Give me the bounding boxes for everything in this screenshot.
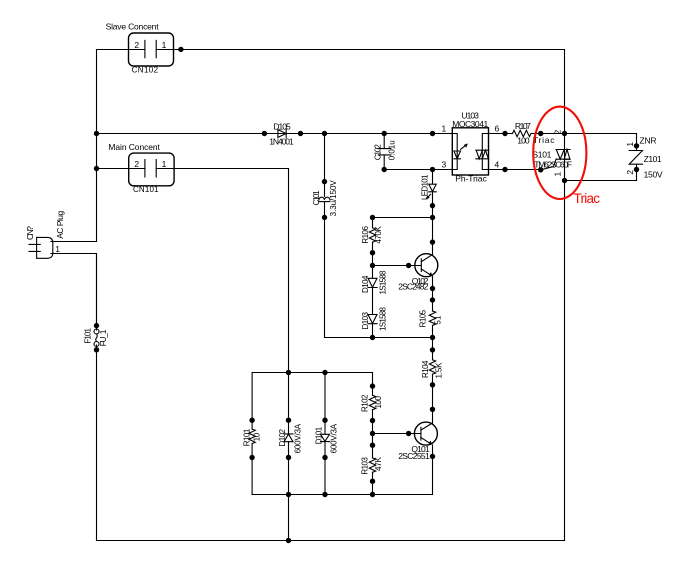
wire Q102 base (373, 265, 422, 267)
S101 pin 2 node (562, 131, 567, 136)
wire R102 top lead (372, 373, 374, 396)
CN102 contact bars (145, 40, 156, 57)
U103 internal triac symbol (476, 150, 489, 159)
svg-text:1: 1 (162, 40, 167, 50)
node top rail junction (178, 47, 183, 52)
wire right vertical rail (564, 50, 566, 541)
wire pin3 rail (384, 169, 452, 171)
Q102 body circle (415, 254, 438, 277)
plug body (37, 237, 53, 258)
C101 negative plate (319, 201, 330, 203)
svg-text:1: 1 (442, 123, 447, 133)
svg-text:Ph-Triac: Ph-Triac (455, 174, 487, 184)
capacitor C101 (312, 131, 338, 338)
wire pin6 rail (489, 133, 637, 135)
D102 symbol (284, 434, 293, 442)
node bottom rail junction (286, 538, 291, 543)
wire Q101 base (373, 433, 421, 435)
svg-text:C101: C101 (312, 190, 321, 206)
wire R106 bottom lead to D104 (372, 242, 374, 278)
triac S101 (532, 130, 572, 184)
svg-text:R104: R104 (421, 360, 430, 378)
U103 pin 6 node (502, 131, 507, 136)
optocoupler U103 (430, 110, 508, 183)
D101 anode pin node (322, 418, 327, 423)
svg-text:D101: D101 (314, 426, 323, 444)
fuse F101 (84, 323, 109, 353)
U103 body (452, 128, 488, 175)
wire R104 bottom lead to Q101 (432, 374, 434, 422)
node D103 bottom junction (370, 335, 375, 340)
node gate junction (538, 167, 543, 172)
svg-text:TM62SC60F: TM62SC60F (534, 159, 572, 169)
svg-text:F101: F101 (84, 328, 93, 344)
Q102 emitter stroke (421, 269, 431, 275)
D105 cathode pin node (298, 131, 303, 136)
wire Q101 emitter down (432, 445, 434, 495)
wire R103 bottom lead (372, 472, 374, 494)
svg-text:51: 51 (433, 315, 442, 325)
S101 gate wire (541, 159, 556, 170)
resistor R107 (513, 121, 544, 145)
resistor R105 (419, 309, 443, 337)
wire R101 top lead (251, 373, 253, 430)
R101 top pin node (249, 418, 254, 423)
wire top rail left of CN102 (97, 49, 145, 51)
diode D101 (314, 373, 338, 495)
wire sub bottom rail (252, 494, 432, 496)
wire R104 top lead (432, 338, 434, 360)
resistor R102 (361, 373, 383, 458)
R107 zigzag (513, 130, 531, 136)
U103 internal LED wiring (452, 134, 457, 170)
Z101 pin 1 node (634, 143, 639, 148)
svg-text:1S1588: 1S1588 (379, 306, 388, 331)
node C101 rail junction (322, 131, 327, 136)
node R106 link junction (430, 215, 435, 220)
wire Z101 bottom return (565, 180, 637, 182)
C102 lead wires (383, 134, 385, 170)
wire CN101 pin2 (97, 168, 145, 170)
R105 zigzag (429, 311, 435, 325)
wire R105 bottom lead (432, 325, 434, 337)
R103 top pin node (370, 443, 375, 448)
D104 symbol (368, 278, 377, 287)
R106 zigzag (369, 228, 375, 242)
Q101 base bar (420, 427, 422, 440)
wire R106 top lead (372, 218, 374, 228)
S101 terminal bars (556, 150, 570, 160)
C102 plates (378, 149, 391, 155)
node D102 top rail junction (286, 370, 291, 375)
svg-text:0.01u: 0.01u (387, 140, 396, 160)
C101 positive plate (319, 197, 330, 200)
svg-text:D102: D102 (278, 428, 287, 446)
node D101 top rail junction (322, 370, 327, 375)
node CN101 pin2 junction (94, 166, 99, 171)
D101 cathode pin node (322, 455, 327, 460)
svg-text:Triac: Triac (533, 135, 555, 145)
resistor R106 (361, 215, 383, 278)
D101 symbol (321, 434, 330, 441)
node C102 rail junction (382, 131, 387, 136)
svg-text:CN101: CN101 (133, 185, 159, 194)
wire plug to left rail (51, 242, 97, 326)
wire C101 down (324, 202, 326, 338)
wire R102 bottom lead (372, 410, 374, 458)
svg-text:D104: D104 (361, 275, 370, 293)
Q102 base bar (420, 259, 422, 272)
node R105 bottom junction (430, 335, 435, 340)
diode D102 (278, 418, 303, 461)
svg-text:1: 1 (55, 244, 60, 254)
svg-text:FU_1: FU_1 (99, 329, 108, 346)
svg-text:R107: R107 (515, 121, 531, 131)
svg-text:R105: R105 (419, 309, 428, 327)
wire D102 column to bottom rail (288, 442, 290, 541)
node rail-left junction (94, 131, 99, 136)
diode D105 (262, 121, 304, 146)
wire sub top rail (252, 372, 372, 374)
wire top rail CN102 to right corner (156, 49, 564, 51)
svg-text:1: 1 (625, 142, 635, 147)
Z101 pin 2 node (634, 167, 639, 172)
wire rail to C101 (324, 134, 326, 197)
S101 triangles (556, 150, 570, 160)
Q102 collector stroke (421, 255, 432, 262)
Q102 collector pin node (430, 239, 435, 244)
svg-text:10: 10 (253, 432, 262, 441)
F101 bottom pin node (94, 347, 99, 352)
wire main rail y133 (97, 133, 453, 135)
svg-text:R103: R103 (361, 457, 370, 475)
R102 top pin node (370, 383, 375, 388)
red circle annotation (533, 107, 586, 199)
LED101 emission arrow (427, 194, 431, 198)
CN102 body (129, 33, 174, 66)
svg-text:100: 100 (517, 136, 530, 146)
R101 bottom pin node (249, 455, 254, 460)
D105 symbol (278, 129, 286, 138)
svg-text:Slave Concent: Slave Concent (106, 22, 160, 32)
AC plug connector CN? (25, 211, 97, 326)
wire LED101 to Q102 collector (432, 192, 434, 255)
C101 bottom pin node (322, 215, 327, 220)
U103 coupling arrow (461, 144, 467, 149)
wire CN101 pin1 to right then down (156, 169, 288, 434)
wire bottom rail (97, 540, 565, 542)
F101 fuse element (96, 334, 97, 342)
wire C101 to D103 bottom link (325, 337, 433, 339)
svg-text:2: 2 (625, 170, 635, 175)
svg-text:AC Plug: AC Plug (55, 211, 65, 239)
svg-text:2: 2 (552, 130, 562, 135)
resistor R101 (243, 373, 262, 495)
svg-text:D103: D103 (361, 311, 370, 329)
U103 pin 4 node (502, 167, 507, 172)
CN101 contact bars (145, 160, 156, 177)
svg-text:1: 1 (162, 159, 167, 169)
plug prongs (29, 244, 40, 251)
R104 bottom pin node (430, 382, 435, 387)
U103 pin 3 node (430, 167, 435, 172)
node emitter pin (430, 454, 435, 459)
D105 anode pin node (262, 131, 267, 136)
Q101 emitter stroke (421, 438, 431, 444)
C102 bottom pin node (382, 167, 387, 172)
connector CN102 (106, 22, 174, 75)
svg-text:Main Concent: Main Concent (108, 142, 160, 152)
D102 cathode pin node (286, 418, 291, 423)
Q101 collector stroke (421, 423, 433, 430)
R103 bottom pin node (370, 479, 375, 484)
diode D103 (361, 306, 388, 337)
F101 terminal circles (94, 329, 99, 334)
R106 top pin node (370, 215, 375, 220)
Q101 base pin node (406, 431, 411, 436)
node Q101 base junction (370, 431, 375, 436)
svg-text:CN102: CN102 (132, 66, 159, 75)
wire pin3 node to LED (432, 170, 434, 185)
node base Q102 junction (370, 263, 375, 268)
R106 bottom pin node (370, 250, 375, 255)
node D101 bottom rail junction (322, 492, 327, 497)
wire left vertical upper (96, 50, 98, 242)
D103 symbol (368, 315, 377, 324)
svg-text:R101: R101 (243, 428, 252, 446)
svg-text:600V/3A: 600V/3A (330, 423, 339, 453)
U103 internal triac wiring (482, 134, 488, 170)
node R107 right junction (538, 131, 543, 136)
svg-text:47K: 47K (374, 456, 383, 471)
node R103 bottom rail junction (370, 492, 375, 497)
LED101 cathode pin node (430, 203, 435, 208)
svg-text:2SC2482: 2SC2482 (398, 282, 428, 292)
D102 anode pin node (286, 455, 291, 460)
resistor R104 (421, 338, 443, 423)
svg-text:470K: 470K (374, 225, 383, 243)
svg-text:2: 2 (134, 40, 139, 50)
Q101 collector pin node (430, 407, 435, 412)
svg-text:1: 1 (552, 172, 562, 177)
R102 zigzag (369, 395, 375, 409)
R102 bottom pin node (370, 418, 375, 423)
R101 zigzag (249, 429, 255, 443)
svg-text:D105: D105 (273, 121, 291, 131)
wire D101 bottom lead (324, 442, 326, 495)
varistor Z101 (565, 134, 663, 181)
R103 zigzag (369, 458, 375, 472)
svg-text:Triac: Triac (574, 191, 601, 206)
svg-text:6: 6 (495, 123, 500, 133)
svg-text:C102: C102 (374, 144, 383, 161)
svg-text:2SC2551: 2SC2551 (398, 451, 430, 461)
connector CN101 (108, 142, 174, 194)
svg-text:600V/3A: 600V/3A (294, 423, 303, 453)
U103 internal LED symbol (454, 151, 461, 159)
resistor R103 (361, 443, 383, 495)
svg-text:S101: S101 (532, 150, 551, 160)
Q101 body circle (414, 422, 437, 445)
wire R101 bottom lead (251, 444, 253, 495)
capacitor C102 (374, 131, 397, 172)
R104 zigzag (429, 360, 435, 374)
wire pin4 gate rail (489, 169, 541, 171)
S101 pin 1 node (562, 178, 567, 183)
transistor Q102 (373, 254, 438, 292)
svg-text:CN?: CN? (25, 226, 35, 240)
F101 top pin node (94, 323, 99, 328)
wire Q102 emitter to R105 (432, 276, 434, 311)
svg-text:1.5K: 1.5K (434, 362, 443, 379)
R104 top pin node (430, 347, 435, 352)
diode D104 (361, 270, 388, 315)
Q102 base pin node (406, 263, 411, 268)
LED101 symbol (429, 184, 436, 192)
transistor Q101 (373, 422, 438, 461)
wire left vertical lower (96, 254, 98, 541)
wire D101 top lead (324, 373, 326, 435)
svg-text:Z101: Z101 (644, 154, 662, 164)
svg-text:150V: 150V (644, 169, 663, 179)
svg-text:R106: R106 (361, 226, 370, 244)
svg-text:ZNR: ZNR (640, 135, 657, 145)
node R105 top pin (430, 297, 435, 302)
node emitter pin (430, 286, 435, 291)
LED LED101 (420, 170, 436, 255)
svg-text:3.3u/150V: 3.3u/150V (329, 180, 338, 217)
svg-text:1S1588: 1S1588 (379, 270, 388, 295)
node D102 bottom rail junction (286, 492, 291, 497)
Z101 symbol (629, 151, 642, 165)
svg-text:MOC3041: MOC3041 (452, 119, 488, 129)
wire R106 top link (373, 217, 433, 219)
CN101 body (129, 153, 174, 186)
svg-text:1N4001: 1N4001 (269, 137, 294, 147)
svg-text:LED101: LED101 (420, 174, 429, 200)
wire D103 to bottom link (372, 324, 374, 338)
wire D104 to D103 (372, 288, 374, 315)
Z101 lead wires (636, 134, 638, 181)
C101 top pin node (322, 179, 327, 184)
U103 pin 1 node (430, 131, 435, 136)
svg-text:100: 100 (374, 395, 383, 408)
svg-text:2: 2 (134, 159, 139, 169)
svg-text:3: 3 (442, 160, 447, 170)
svg-text:4: 4 (495, 160, 500, 170)
svg-text:R102: R102 (361, 394, 370, 412)
